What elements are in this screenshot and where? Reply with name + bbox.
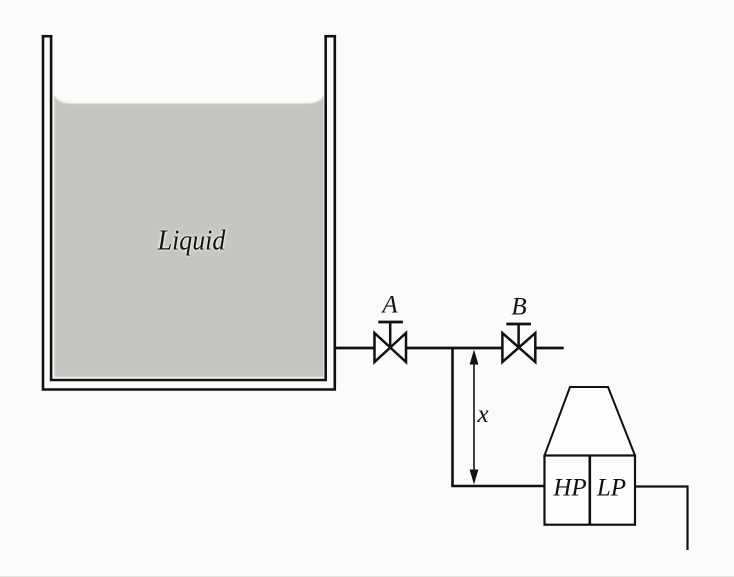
wire valve B outlet bbox=[535, 347, 563, 350]
chamber divider bbox=[588, 456, 591, 525]
tank inner wall U bbox=[51, 35, 326, 380]
wire valve A to valve B bbox=[406, 347, 503, 350]
tank outer wall U bbox=[43, 35, 335, 389]
wire junction down to HP bbox=[453, 348, 545, 486]
valve B bbox=[502, 324, 535, 362]
svg-text:A: A bbox=[380, 292, 398, 319]
svg-text:LP: LP bbox=[596, 475, 626, 502]
wire LP outlet bbox=[636, 487, 688, 551]
wire tank to valve A bbox=[336, 347, 375, 350]
dimension arrow x bbox=[470, 350, 479, 485]
valve A bbox=[375, 322, 407, 362]
svg-text:x: x bbox=[476, 401, 488, 428]
liquid fill bbox=[54, 95, 323, 377]
right wall top cap bbox=[324, 35, 336, 38]
transmitter body bbox=[545, 456, 636, 525]
transmitter cap (trapezoid) bbox=[545, 387, 636, 456]
bottom edge line bbox=[0, 576, 734, 577]
svg-text:Liquid: Liquid bbox=[157, 226, 226, 257]
svg-text:B: B bbox=[511, 294, 526, 321]
left wall top cap bbox=[42, 35, 53, 38]
svg-text:HP: HP bbox=[552, 475, 586, 502]
